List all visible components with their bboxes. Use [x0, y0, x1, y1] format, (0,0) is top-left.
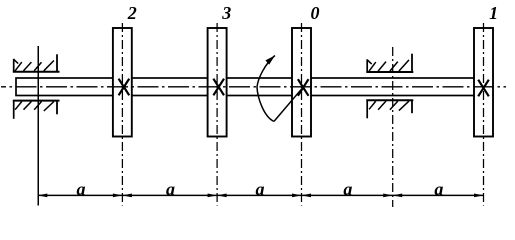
dimension arrowheads at disk 0 tick: [292, 194, 311, 198]
svg-text:a: a: [256, 179, 265, 199]
dimension arrowheads at right support tick: [383, 194, 402, 198]
right support center line: [392, 47, 394, 207]
svg-text:a: a: [166, 179, 175, 199]
svg-text:0: 0: [311, 3, 320, 23]
hub cross disk 3: [213, 79, 224, 96]
dimension arrowhead at disk 1 tick: [474, 194, 484, 198]
dimension line: [38, 194, 484, 196]
dimension arrowheads at disk 2 tick: [113, 194, 132, 198]
right support top bracket: [366, 54, 413, 72]
torque arrow arc: [257, 56, 275, 122]
disk 3 center line: [216, 23, 218, 206]
left support bottom bracket: [13, 101, 60, 119]
disk 3: [208, 28, 227, 137]
svg-text:2: 2: [127, 3, 137, 23]
disk 2: [113, 28, 132, 137]
dimension arrowhead at left support tick: [38, 194, 48, 198]
left support center line: [37, 46, 39, 206]
disk 1: [474, 28, 493, 137]
svg-text:a: a: [343, 179, 352, 199]
disk 1 center line: [483, 23, 485, 206]
right support bottom bracket: [366, 100, 413, 118]
torque arrowhead: [265, 56, 275, 65]
svg-text:a: a: [77, 179, 86, 199]
shaft: [16, 78, 488, 96]
disk 2 center line: [121, 23, 123, 206]
torque arrow lead line: [274, 88, 303, 122]
hub cross disk 1: [478, 80, 489, 97]
disk 0: [292, 28, 311, 137]
svg-text:1: 1: [489, 3, 498, 23]
hub cross disk 0: [298, 79, 309, 96]
svg-text:3: 3: [221, 3, 231, 23]
hub cross disk 2: [119, 79, 130, 96]
disk 0 center line: [301, 23, 303, 206]
svg-text:a: a: [434, 179, 443, 199]
left support top bracket: [13, 54, 60, 71]
dimension arrowheads at disk 3 tick: [208, 194, 227, 198]
shaft axis line: [1, 86, 506, 88]
